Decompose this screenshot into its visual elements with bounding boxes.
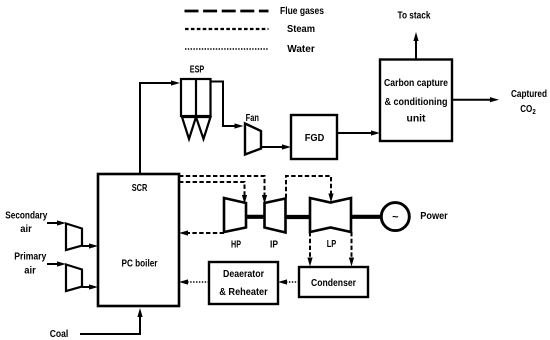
IP turbine — [265, 199, 286, 233]
water line: deaerator to boiler (dotted, arrow left) — [179, 279, 209, 284]
svg-text:air: air — [20, 224, 32, 235]
svg-text:Water: Water — [287, 44, 315, 55]
primary air fan (trapezoid) — [66, 265, 82, 292]
svg-text:Coal: Coal — [50, 329, 69, 340]
ESP precipitator body (two chambers with hoppers) — [181, 79, 211, 139]
shaft IP-LP — [286, 215, 311, 219]
svg-text:air: air — [24, 265, 36, 276]
wire: coal feed to boiler (arrow up) — [80, 308, 143, 334]
svg-text:Power: Power — [420, 211, 448, 222]
water line: condenser to deaerator (dotted, arrow left) — [278, 279, 299, 284]
PC boiler vessel with SCR — [98, 174, 179, 306]
label Primary air — [14, 252, 46, 277]
LP turbine (double-flow bowtie) — [310, 198, 351, 232]
steam line: LP to condenser right (dashed, arrow down) — [349, 232, 354, 267]
svg-text:Deaerator: Deaerator — [223, 269, 264, 280]
wire: carbon capture unit to stack (vertical arrow up) — [413, 32, 418, 59]
svg-text:SCR: SCR — [132, 183, 148, 194]
svg-text:To stack: To stack — [398, 11, 431, 22]
label Secondary air — [5, 211, 47, 235]
svg-text:& Reheater: & Reheater — [219, 287, 268, 298]
legend line: steam (short dashes) — [185, 28, 269, 30]
carbon capture unit U-CCU — [380, 60, 452, 142]
svg-text:Fan: Fan — [246, 113, 259, 124]
svg-text:Steam: Steam — [287, 24, 315, 35]
steam line: boiler to IP turbine (dashed, arrow down) — [179, 176, 267, 204]
shaft LP-generator — [351, 215, 382, 219]
wire: FGD to CCU (arrow right) — [337, 130, 380, 135]
svg-text:PC boiler: PC boiler — [122, 259, 158, 270]
secondary air fan (trapezoid) — [66, 224, 82, 251]
svg-text:HP: HP — [231, 240, 241, 251]
label Captured CO2 — [511, 89, 547, 116]
FGD unit — [291, 115, 337, 159]
wire: secondary air to fan (arrow right) — [47, 220, 66, 225]
fan F1 (trapezoid) — [245, 124, 261, 155]
svg-text:~: ~ — [392, 212, 399, 224]
wire: primary air fan to boiler (arrow right) — [82, 284, 98, 289]
wire: boiler to ESP (flue gas, arrow right) — [139, 80, 180, 174]
svg-text:IP: IP — [270, 240, 278, 251]
legend line: water (dotted) — [185, 48, 268, 50]
svg-text:FGD: FGD — [305, 133, 325, 144]
svg-text:unit: unit — [407, 114, 427, 125]
wire: CCU to captured CO2 (arrow right) — [452, 97, 499, 102]
condenser unit — [299, 267, 368, 297]
svg-text:Condenser: Condenser — [311, 278, 356, 289]
steam line: boiler to HP turbine (dashed, arrow down) — [179, 182, 247, 204]
steam line: LP to condenser left (dashed, arrow down) — [307, 232, 312, 267]
wire: primary air to fan (arrow right) — [47, 261, 66, 266]
wire: secondary air fan to boiler (arrow right) — [82, 243, 98, 248]
HP turbine — [224, 198, 246, 232]
svg-text:Secondary: Secondary — [5, 211, 47, 222]
svg-text:LP: LP — [327, 239, 337, 250]
generator G (~) — [381, 203, 409, 231]
svg-text:Carbon capture: Carbon capture — [384, 78, 448, 89]
steam line: HP exhaust to boiler reheat (dashed, arrow left) — [179, 230, 224, 235]
svg-text:Flue gases: Flue gases — [280, 6, 324, 17]
wire: ESP to fan (arrow right) — [211, 82, 244, 129]
shaft HP-IP — [246, 215, 265, 219]
svg-text:& conditioning: & conditioning — [385, 97, 448, 108]
svg-text:Captured: Captured — [511, 89, 547, 100]
svg-text:ESP: ESP — [190, 65, 205, 76]
svg-text:Primary: Primary — [14, 252, 46, 263]
steam line: IP to LP crossover (dashed, arrow down) — [286, 176, 334, 203]
legend line: flue gases (long dashes) — [185, 10, 269, 13]
wire: fan to FGD (arrow right) — [261, 144, 291, 149]
deaerator and reheater unit — [209, 262, 278, 304]
